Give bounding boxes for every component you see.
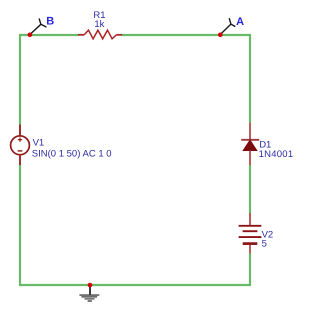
ground xyxy=(79,283,99,302)
node B probe pin xyxy=(30,18,47,34)
svg-text:SIN(0 1 50) AC 1 0: SIN(0 1 50) AC 1 0 xyxy=(32,149,112,160)
D1 top lead xyxy=(249,123,251,140)
V1 circle body xyxy=(11,136,30,155)
ground bar 3 xyxy=(85,298,95,299)
V2 plate 2 (short) xyxy=(243,230,258,232)
R1 right lead xyxy=(116,34,122,36)
R1 left lead xyxy=(78,34,84,36)
ground bar 4 xyxy=(88,300,92,301)
ground bar 2 xyxy=(81,296,97,298)
ground stub xyxy=(89,286,91,295)
diode D1 xyxy=(241,123,293,165)
V2 plate 1 (long) xyxy=(239,225,262,227)
svg-text:A: A xyxy=(236,16,244,28)
node B junction dot xyxy=(28,33,33,38)
V2 top lead xyxy=(249,213,251,225)
svg-text:5: 5 xyxy=(262,238,267,249)
node A junction dot xyxy=(218,33,223,38)
D1 cathode bar xyxy=(241,139,259,141)
node B xyxy=(28,16,55,38)
wire top-right L (top rail from R1 + right rail to D1) xyxy=(122,35,250,123)
voltage source V1 xyxy=(11,125,112,166)
wire top-left L (left rail upper + top rail to R1) xyxy=(20,35,79,125)
V2 bottom lead xyxy=(249,245,251,254)
ground junction dot xyxy=(88,283,93,288)
V1 minus sign xyxy=(18,150,23,152)
svg-text:V1: V1 xyxy=(33,138,45,149)
wire right middle (D1 to V2) xyxy=(249,165,251,214)
battery V2 xyxy=(239,213,274,253)
V1 bottom lead xyxy=(19,155,21,165)
node A xyxy=(218,16,244,37)
resistor R1 xyxy=(78,10,122,39)
V2 plate 4 (short thick) xyxy=(243,242,258,245)
svg-text:1k: 1k xyxy=(94,19,104,30)
svg-text:1N4001: 1N4001 xyxy=(259,149,294,160)
ground bar 1 xyxy=(79,294,99,295)
D1 triangle (anode, pointing up) xyxy=(243,140,257,151)
R1 zigzag body xyxy=(84,30,116,39)
D1 bottom lead xyxy=(249,151,251,165)
wire bottom U (V2 down, bottom rail, left rail lower) xyxy=(20,165,250,285)
V1 top lead xyxy=(19,125,21,137)
V1 plus sign xyxy=(18,138,22,142)
node A probe pin xyxy=(220,18,235,34)
svg-text:B: B xyxy=(46,16,54,28)
V2 plate 3 (long) xyxy=(239,236,262,238)
